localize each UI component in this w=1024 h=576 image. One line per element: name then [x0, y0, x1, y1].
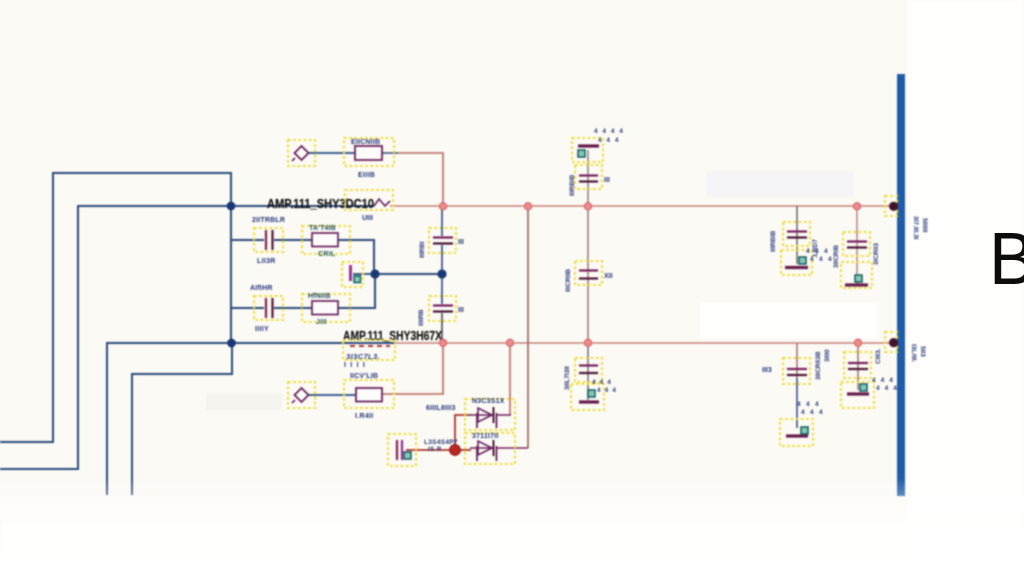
svg-text:AMP.111_SHY3H67X: AMP.111_SHY3H67X: [343, 328, 442, 343]
resistor R1: [344, 138, 394, 166]
svg-text:I3L/III.: I3L/III.: [910, 344, 917, 363]
svg-text:4 4 4: 4 4 4: [806, 248, 829, 255]
bus tap box rail1: [885, 196, 897, 216]
svg-text:3IIL7I3II: 3IIL7I3II: [564, 366, 571, 390]
svg-text:4 4 4: 4 4 4: [597, 387, 617, 394]
junction red node: [450, 445, 461, 456]
diode D2: [465, 433, 515, 464]
ground bar C11: [841, 382, 874, 408]
net tie highlight rail2: [343, 340, 395, 360]
svg-text:5II3: 5II3: [919, 346, 926, 357]
wire net IN2 second L: [0, 206, 229, 469]
bus tap dot rail1: [889, 202, 898, 211]
svg-text:III3: III3: [762, 367, 772, 374]
wire R1 output blue part: [382, 152, 398, 154]
junction rail2 x443: [439, 339, 446, 346]
wire rail1 salmon part: [390, 205, 896, 207]
ground bar C8: [781, 250, 812, 275]
svg-text:3I7.III.3I: 3I7.III.3I: [912, 216, 919, 240]
svg-text:UIII: UIII: [362, 215, 373, 222]
port P1 diamond: [288, 140, 315, 166]
junction rail2 x858: [854, 339, 861, 346]
svg-text:I.R4II: I.R4II: [355, 413, 374, 420]
white right strip: [907, 0, 1024, 576]
capacitor C11 bottom right col2: [844, 352, 871, 378]
wire red node to D2 anode: [455, 449, 471, 451]
wire C9 tap top right 2: [856, 207, 858, 284]
svg-text:IIIIY: IIIIY: [255, 326, 269, 333]
svg-text:5IIIIII: 5IIIIII: [921, 218, 928, 233]
ground stub G1: [342, 262, 363, 287]
svg-text:JIII: JIII: [316, 319, 327, 326]
svg-text:IIICRIIB: IIICRIIB: [565, 269, 572, 292]
port P2: [388, 434, 416, 466]
capacitor C8 top right col1: [783, 222, 810, 246]
faint overlay box upper right: [706, 171, 854, 197]
ground bar C9: [841, 262, 872, 288]
junction J4: [437, 269, 446, 278]
capacitor C9 top right col2: [843, 232, 870, 256]
ground bar C7: [571, 384, 604, 410]
svg-text:AIfIHR: AIfIHR: [250, 285, 273, 292]
svg-text:3III0: 3III0: [824, 349, 831, 362]
port P4 diamond: [288, 382, 315, 408]
wire C8 tap top right: [796, 206, 798, 264]
wire port P2 red to node: [406, 449, 455, 451]
svg-text:III: III: [604, 177, 610, 184]
svg-text:XII: XII: [604, 273, 613, 280]
svg-text:6IIIL8III3: 6IIIL8III3: [426, 405, 456, 412]
svg-text:4 4 4: 4 4 4: [592, 379, 612, 386]
bus tap box rail2: [885, 332, 897, 352]
junction rail1 x528: [524, 203, 531, 210]
ground bar C10: [780, 419, 813, 446]
wire C6 chain below rail1: [587, 206, 589, 343]
wire red node to D1 anode: [455, 415, 471, 450]
selection dashes rail2: [350, 345, 390, 347]
wire bank2 cap to resistor: [274, 307, 312, 309]
svg-text:4 4 4: 4 4 4: [797, 401, 820, 408]
wire stub to J3: [353, 273, 371, 275]
diode D1: [465, 399, 515, 430]
svg-text:CRIL: CRIL: [318, 251, 336, 258]
wire C7 chain below rail2: [587, 343, 589, 400]
wire rail2 salmon part: [394, 342, 896, 344]
bus tap dot rail2: [889, 338, 898, 347]
wire rail1 blue part: [231, 205, 374, 207]
svg-text:III: III: [458, 307, 464, 314]
junction J1: [227, 202, 236, 211]
svg-text:IIIRBI: IIIRBI: [419, 241, 426, 258]
svg-text:2IITRBLR: 2IITRBLR: [252, 217, 285, 224]
wire bank2 resistor to J3: [338, 278, 375, 308]
svg-text:IICV'LIB: IICV'LIB: [350, 373, 378, 380]
svg-text:III: III: [458, 239, 464, 246]
bottom fade: [0, 478, 1024, 576]
capacitor C6 below rail1: [575, 261, 602, 285]
wire C10 tap bottom right: [796, 344, 798, 379]
net tie highlight rail1: [345, 190, 393, 210]
svg-text:3IICRII3B: 3IICRII3B: [815, 351, 822, 380]
svg-text:CIII3.: CIII3.: [875, 348, 882, 364]
svg-text:4 4 4 4: 4 4 4 4: [594, 128, 624, 135]
svg-text:EIICNIIB: EIICNIIB: [351, 139, 380, 146]
bus bar: [897, 74, 905, 496]
capacitor C7 below rail2: [575, 358, 602, 382]
wire rail2 blue part: [232, 342, 394, 344]
svg-text:3I3C7L3.: 3I3C7L3.: [346, 352, 380, 361]
junction J3: [370, 269, 379, 278]
faint overlay box mid right: [700, 302, 877, 338]
svg-text:4 4 4: 4 4 4: [876, 385, 898, 392]
capacitor C5 above rail1: [575, 165, 602, 189]
svg-text:3711I7II: 3711I7II: [472, 433, 499, 440]
wire D2 cathode to riser: [497, 447, 528, 449]
svg-text:4 4 4: 4 4 4: [801, 409, 824, 416]
wire C10 ground lead blue: [796, 378, 798, 428]
wire net IN1 top-left L: [0, 173, 231, 442]
svg-text:TA'T4IB: TA'T4IB: [309, 225, 336, 232]
capacitor C1 series bank1: [254, 228, 283, 252]
svg-text:AMP.111_SHY3DC10: AMP.111_SHY3DC10: [267, 196, 374, 211]
wire J3 to J4: [375, 273, 442, 275]
junction rail2 x588: [584, 339, 591, 346]
wire bank1 cap lead left: [231, 239, 264, 241]
junction J2: [227, 339, 236, 348]
svg-text:IIIRBIB: IIIRBIB: [569, 174, 576, 196]
wire port P1 to R1: [308, 152, 355, 154]
wire net IN3 third L: [107, 343, 230, 495]
capacitor C4 shunt x=442 lower: [429, 276, 456, 342]
net tie zigzag rail1: [374, 199, 390, 206]
capacitor C10 bottom right col1: [783, 358, 810, 384]
wire bank2 cap lead left: [231, 307, 264, 309]
wire C5 chain above rail1: [587, 150, 589, 206]
wire vertical bus x=231: [230, 206, 232, 343]
faint overlay box bottom-left: [206, 393, 282, 410]
wire D1 cathode to riser: [497, 414, 511, 416]
wire riser x=510 rail2 to D1: [509, 345, 511, 416]
resistor R2 bank1: [302, 226, 350, 254]
wire bank1 resistor to J3: [338, 240, 374, 270]
resistor R4: [344, 380, 394, 408]
wire R1 output salmon to rail1: [398, 153, 443, 204]
wire R4 output to rail2 riser: [382, 345, 443, 394]
capacitor C2 series bank2: [254, 296, 283, 320]
svg-text:I I I I: I I I I: [344, 362, 366, 369]
svg-text:LII3R: LII3R: [257, 258, 276, 265]
svg-text:4 4 4: 4 4 4: [598, 137, 620, 144]
caption letter B: [989, 216, 1024, 301]
svg-text:3ICRII3: 3ICRII3: [873, 243, 880, 265]
wire port P4 to R4: [308, 394, 356, 396]
svg-text:4 4 4: 4 4 4: [872, 377, 894, 384]
svg-text:4 4 4: 4 4 4: [810, 256, 833, 263]
svg-text:3IICRIB: 3IICRIB: [833, 245, 840, 268]
resistor R3 bank2: [302, 294, 350, 322]
wire net IN4 fourth L: [132, 345, 232, 495]
wire C11 tap bottom right 2: [857, 344, 859, 391]
junction rail1 x857: [853, 203, 860, 210]
svg-text:IIIIRB: IIIIRB: [418, 309, 425, 326]
junction rail2 x510: [506, 339, 513, 346]
junction rail1 x442: [439, 203, 446, 210]
wire bank1 cap to resistor: [274, 239, 312, 241]
svg-text:IIIRBIB: IIIRBIB: [770, 230, 777, 252]
svg-text:EIIIB: EIIIB: [358, 172, 375, 179]
svg-text:IS R: IS R: [428, 447, 442, 453]
wire long riser x=528 rail1 to D2: [527, 208, 529, 449]
svg-text:N3C3S1X: N3C3S1X: [472, 398, 505, 405]
ground bar C5: [572, 138, 603, 162]
junction rail1 x588: [584, 203, 591, 210]
svg-text:HfNIIB: HfNIIB: [308, 293, 331, 300]
capacitor C3 shunt x=442 upper: [429, 206, 456, 272]
